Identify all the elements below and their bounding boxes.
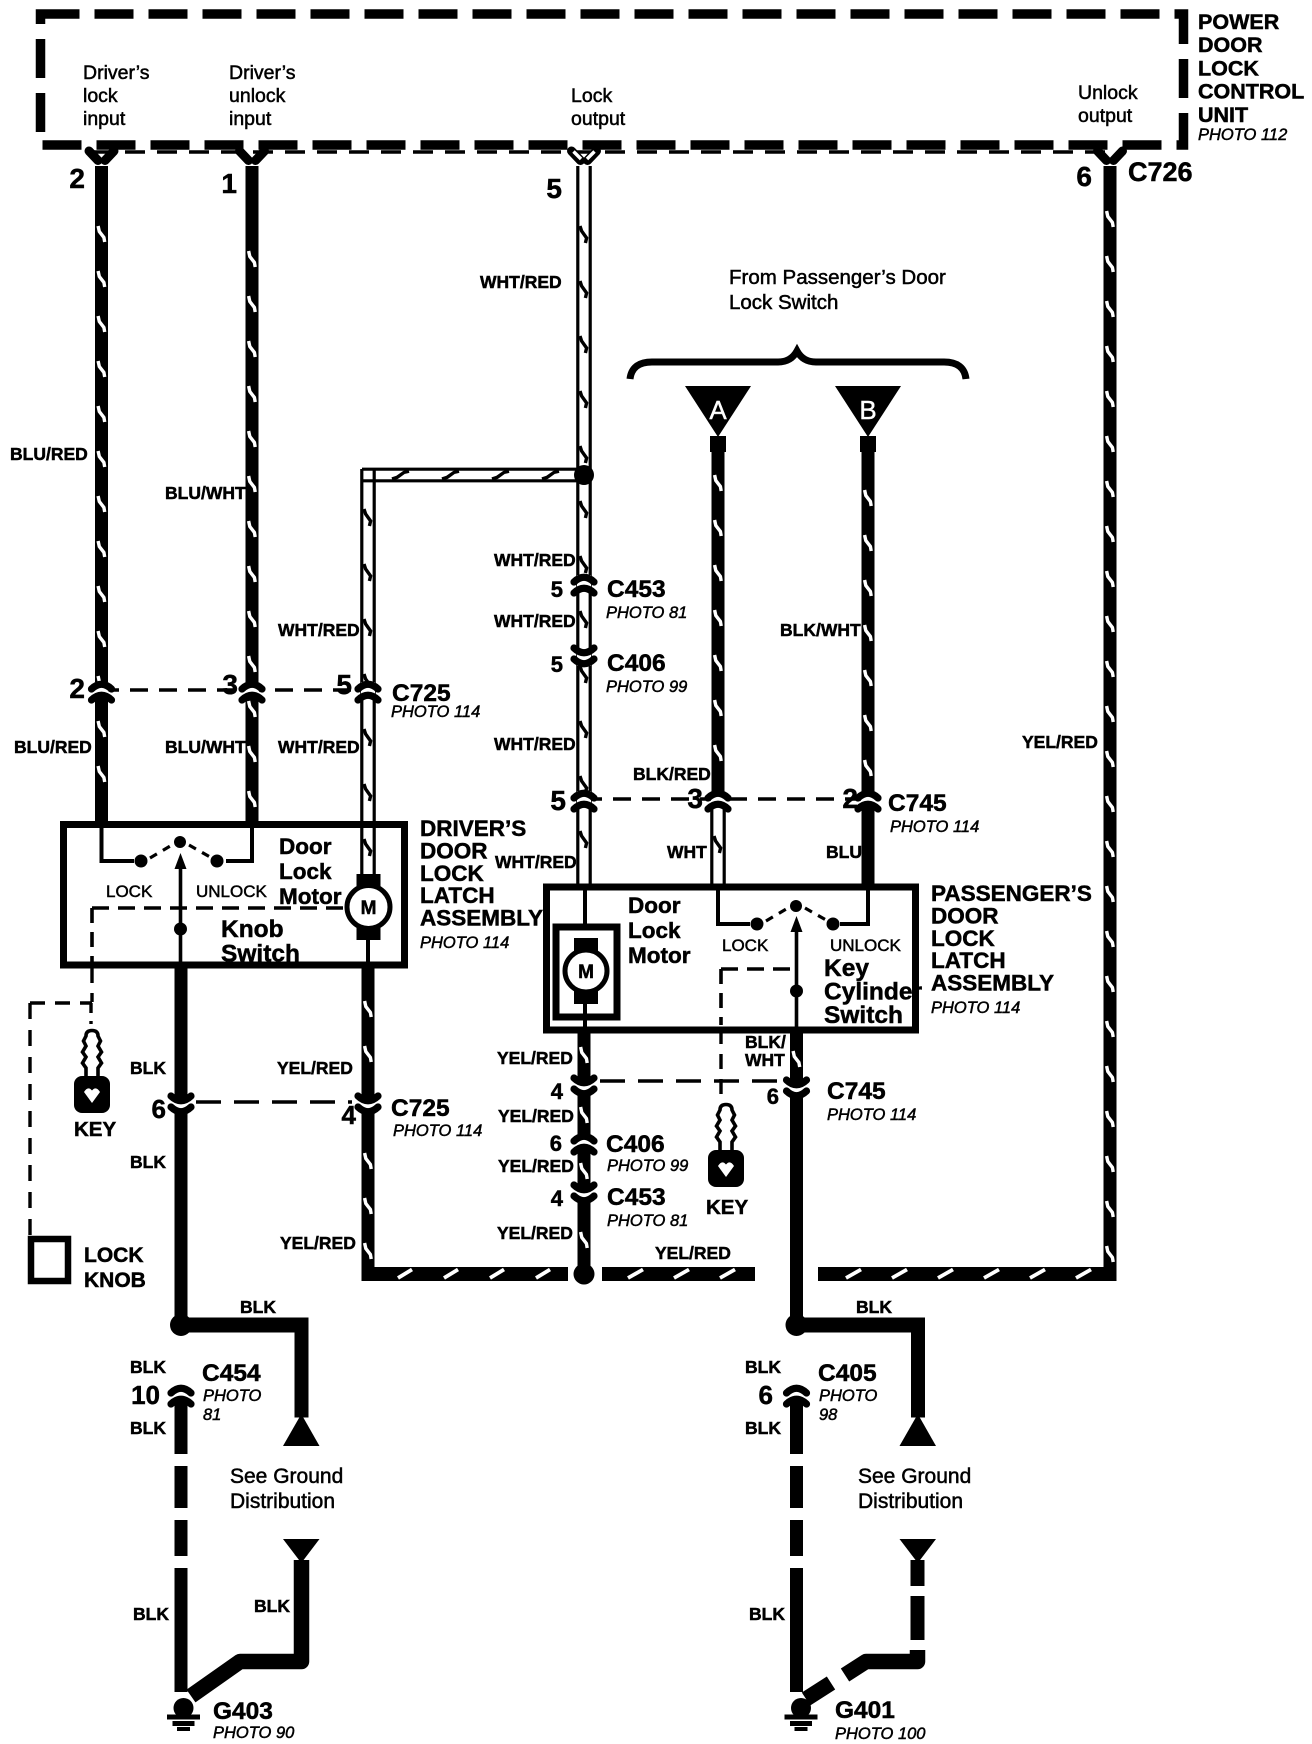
pin 4 label C725 — [342, 1100, 357, 1130]
motor housing (passenger) — [556, 927, 617, 1017]
svg-text:6: 6 — [550, 1131, 562, 1156]
note from passenger's door lock switch — [729, 266, 946, 314]
pin 4 label C453 lower — [551, 1186, 564, 1211]
connector C745 pin2 — [858, 791, 878, 809]
svg-text:UNLOCK: UNLOCK — [830, 936, 902, 955]
driver door lock latch assembly box — [64, 825, 405, 966]
wire lock contact (passenger) — [716, 889, 750, 924]
svg-text:WHT/RED: WHT/RED — [494, 734, 576, 754]
pin 1 label C726 — [221, 168, 237, 199]
knob switch dashed throw right — [189, 845, 210, 857]
label YEL/RED driver latch upper — [277, 1058, 353, 1078]
svg-text:PHOTO 81: PHOTO 81 — [606, 604, 687, 622]
pin 6 terminal fork — [1098, 151, 1123, 161]
wire BLU/WHT pin1 to driver latch — [246, 166, 259, 822]
arrow from ground distribution (passenger) — [900, 1539, 937, 1563]
svg-text:DOOR: DOOR — [931, 903, 999, 928]
connector C725 pin4 — [358, 1096, 378, 1114]
svg-text:LOCK: LOCK — [84, 1244, 144, 1267]
wire BLK/RED from A — [712, 450, 725, 792]
knob switch unlock contact dot — [211, 855, 224, 868]
connector C725 pin2 — [92, 682, 112, 700]
svg-text:DOOR: DOOR — [420, 838, 488, 863]
svg-text:C405: C405 — [818, 1360, 877, 1387]
svg-text:BLK: BLK — [856, 1297, 892, 1317]
svg-text:PHOTO: PHOTO — [203, 1387, 262, 1405]
label WHT/RED upper — [480, 272, 562, 292]
svg-text:input: input — [83, 108, 126, 130]
pin 6 label C726 — [1076, 161, 1092, 192]
svg-text:5: 5 — [546, 173, 562, 204]
wire BLU/RED pin2 to driver latch — [95, 166, 108, 822]
connector C725 pin3 — [242, 682, 262, 700]
svg-text:BLK/: BLK/ — [745, 1032, 786, 1052]
pin 4 label C745 lower — [551, 1079, 564, 1104]
label BLK/WHT below latch — [745, 1032, 786, 1070]
svg-text:G401: G401 — [835, 1697, 895, 1724]
label YEL/RED p4 — [497, 1223, 573, 1243]
dashed link latch to key (passenger) — [719, 1029, 722, 1096]
label BLK below C454 — [130, 1418, 166, 1438]
label BLK branch passenger — [856, 1297, 892, 1317]
svg-text:input: input — [229, 108, 272, 130]
svg-text:Motor: Motor — [279, 884, 342, 909]
key switch pivot dot — [790, 900, 802, 912]
wire YEL/RED passenger motor down — [578, 1031, 591, 1081]
svg-text:PHOTO 114: PHOTO 114 — [393, 1122, 482, 1140]
svg-text:YEL/RED: YEL/RED — [497, 1223, 573, 1243]
svg-text:YEL/RED: YEL/RED — [1022, 732, 1098, 752]
key switch unlock contact dot — [827, 918, 840, 931]
svg-text:UNIT: UNIT — [1198, 103, 1248, 127]
svg-text:PHOTO 114: PHOTO 114 — [827, 1106, 916, 1124]
svg-text:C745: C745 — [888, 790, 947, 817]
svg-text:5: 5 — [551, 577, 563, 602]
label BLU — [826, 842, 862, 862]
svg-text:unlock: unlock — [229, 85, 286, 107]
wire BLK key switch to ground — [790, 1097, 803, 1320]
label lock output pin — [571, 85, 626, 130]
svg-text:5: 5 — [336, 669, 352, 700]
wire YEL/RED C745 to C406 — [578, 1095, 591, 1135]
svg-text:PHOTO 99: PHOTO 99 — [606, 678, 687, 696]
label C745 lower — [827, 1078, 916, 1124]
svg-text:BLK: BLK — [745, 1418, 781, 1438]
wire WHT/RED branch vertical — [362, 469, 374, 878]
label C406 — [606, 650, 687, 696]
wire YEL/RED driver motor down — [362, 966, 375, 1099]
svg-text:PHOTO 114: PHOTO 114 — [391, 703, 480, 721]
svg-text:BLK: BLK — [745, 1357, 781, 1377]
svg-text:lock: lock — [83, 85, 118, 107]
label YEL/RED bus — [655, 1243, 731, 1263]
label BLK branch driver — [240, 1297, 276, 1317]
svg-text:M: M — [361, 898, 377, 919]
label LOCK (driver) — [106, 882, 153, 901]
svg-text:DOOR: DOOR — [1198, 33, 1263, 57]
knob switch arm dot — [174, 923, 187, 936]
svg-text:UNLOCK: UNLOCK — [196, 882, 268, 901]
key symbol (driver) — [74, 1031, 110, 1114]
motor M driver — [347, 874, 390, 940]
wire motor to box bottom (driver) — [366, 940, 370, 966]
label C453 lower — [607, 1184, 688, 1230]
label BLK bottom left main — [133, 1604, 169, 1624]
knob switch pivot dot — [174, 836, 186, 848]
svg-text:WHT: WHT — [745, 1050, 785, 1070]
key switch dashed throw right — [805, 908, 826, 920]
off-page connector B — [835, 386, 901, 452]
ground G403 — [167, 1698, 200, 1731]
svg-text:BLK: BLK — [130, 1418, 166, 1438]
svg-text:WHT/RED: WHT/RED — [494, 550, 576, 570]
svg-text:6: 6 — [759, 1380, 773, 1410]
knob switch arm arrow — [175, 853, 187, 968]
label C725 upper — [391, 680, 480, 721]
svg-text:BLK/WHT: BLK/WHT — [780, 620, 861, 640]
label door lock motor (passenger) — [628, 893, 691, 968]
arrow from ground distribution (driver) — [283, 1539, 320, 1563]
connector C745 line upper — [584, 797, 868, 801]
junction dot passenger BLK — [786, 1314, 808, 1336]
label YEL/RED right — [1022, 732, 1098, 752]
svg-text:LOCK: LOCK — [420, 861, 484, 886]
connector C406 pin5 — [574, 648, 594, 666]
connector C454 pin10 — [171, 1386, 191, 1404]
pin 2 label C725 — [69, 673, 85, 704]
wire motor feed (passenger) — [583, 889, 587, 930]
label WHT/RED above passenger latch — [495, 852, 577, 872]
svg-text:6: 6 — [1076, 161, 1092, 192]
svg-text:C726: C726 — [1128, 157, 1193, 187]
svg-text:Door: Door — [279, 834, 332, 859]
svg-text:2: 2 — [842, 783, 858, 814]
svg-text:Distribution: Distribution — [858, 1490, 963, 1513]
label BLK bottom left branch — [254, 1596, 290, 1616]
svg-text:output: output — [1078, 105, 1133, 127]
label UNLOCK (driver) — [196, 882, 268, 901]
svg-text:LATCH: LATCH — [931, 948, 1006, 973]
label KEY (passenger) — [706, 1196, 748, 1219]
key symbol (passenger) — [708, 1105, 744, 1188]
svg-text:3: 3 — [222, 669, 238, 700]
svg-text:5: 5 — [550, 785, 566, 816]
svg-text:YEL/RED: YEL/RED — [655, 1243, 731, 1263]
pin 5 terminal fork — [572, 151, 597, 161]
label C454 — [202, 1360, 262, 1424]
pin 5 label C453 — [551, 577, 563, 602]
label door lock motor (driver) — [279, 834, 342, 909]
svg-text:POWER: POWER — [1198, 10, 1280, 34]
svg-text:PHOTO 100: PHOTO 100 — [835, 1725, 926, 1743]
wire YEL/RED bus left — [362, 1267, 756, 1281]
label BLU/RED upper — [10, 444, 88, 464]
svg-text:WHT: WHT — [667, 842, 707, 862]
wire BLK dashed to ground (passenger) — [790, 1398, 803, 1692]
svg-text:ASSEMBLY: ASSEMBLY — [420, 906, 543, 931]
pin 3 label C745 — [687, 783, 703, 814]
connector C725 line upper — [101, 688, 368, 692]
wire WHT from C745 to passenger latch — [712, 806, 724, 888]
pin 6 label C725 — [152, 1094, 166, 1124]
passenger door lock latch assembly box — [547, 887, 916, 1030]
label YEL/RED driver latch lower — [280, 1233, 356, 1253]
svg-text:WHT/RED: WHT/RED — [494, 611, 576, 631]
svg-text:LOCK: LOCK — [1198, 56, 1259, 80]
label WHT/RED branch upper — [278, 620, 360, 640]
svg-text:C725: C725 — [391, 1095, 450, 1122]
pin 5 label C406 — [551, 652, 563, 677]
connector C726 line — [93, 150, 1106, 154]
motor M passenger — [565, 938, 607, 1004]
svg-text:Driver’s: Driver’s — [229, 62, 296, 84]
ground G401 — [785, 1698, 818, 1731]
svg-text:Door: Door — [628, 893, 681, 918]
svg-text:3: 3 — [687, 783, 703, 814]
pin 6 label C745 lower — [767, 1084, 779, 1109]
label LOCK (passenger) — [722, 936, 769, 955]
svg-text:WHT/RED: WHT/RED — [278, 620, 360, 640]
knob switch dashed throw left — [150, 845, 172, 858]
pin 6 label C405 — [759, 1380, 773, 1410]
dashed link latch to key/knob — [30, 968, 92, 1236]
label driver's unlock input pin — [229, 62, 296, 130]
wire WHT/RED lock output (white) — [578, 166, 590, 884]
label BLK bottom right main — [749, 1604, 785, 1624]
svg-text:Distribution: Distribution — [230, 1490, 335, 1513]
svg-text:4: 4 — [342, 1100, 357, 1130]
svg-text:BLK: BLK — [749, 1604, 785, 1624]
label WHT — [667, 842, 707, 862]
junction dot bus — [574, 1264, 595, 1285]
svg-text:KEY: KEY — [74, 1118, 116, 1141]
label WHT/RED below C406 — [494, 734, 576, 754]
svg-text:M: M — [578, 962, 594, 983]
pin 3 label C725 — [222, 669, 238, 700]
svg-text:10: 10 — [131, 1380, 160, 1410]
svg-text:81: 81 — [203, 1406, 221, 1424]
svg-text:PHOTO 81: PHOTO 81 — [607, 1212, 688, 1230]
wire unlock contact (driver) — [226, 826, 254, 861]
svg-text:Lock Switch: Lock Switch — [729, 291, 838, 314]
connector C745 pin5 — [574, 791, 594, 809]
junction dot lock output branch — [574, 465, 594, 485]
label BLU/WHT upper — [165, 483, 246, 503]
svg-text:BLK/RED: BLK/RED — [633, 764, 711, 784]
svg-text:4: 4 — [551, 1079, 564, 1104]
svg-text:PHOTO 114: PHOTO 114 — [931, 999, 1020, 1017]
svg-text:BLU/WHT: BLU/WHT — [165, 483, 246, 503]
svg-text:ASSEMBLY: ASSEMBLY — [931, 971, 1054, 996]
wire BLK branch driver — [188, 1318, 309, 1418]
label driver's lock input pin — [83, 62, 150, 130]
svg-text:G403: G403 — [213, 1698, 273, 1725]
svg-text:Motor: Motor — [628, 943, 691, 968]
label YEL/RED p3 — [498, 1156, 574, 1176]
svg-text:PASSENGER’S: PASSENGER’S — [931, 881, 1092, 906]
label YEL/RED p2 — [498, 1106, 574, 1126]
pin 1 terminal fork — [240, 151, 265, 161]
pin 5 label C725 — [336, 669, 352, 700]
junction dot driver BLK — [170, 1314, 192, 1336]
svg-text:1: 1 — [221, 168, 237, 199]
svg-text:BLK: BLK — [133, 1604, 169, 1624]
connector C725 line lower — [196, 1100, 352, 1104]
key switch lock contact dot — [751, 918, 764, 931]
wire BLK/WHT from B — [862, 450, 875, 792]
svg-text:BLK: BLK — [130, 1058, 166, 1078]
wire YEL/RED C406 to C453 — [578, 1149, 591, 1188]
svg-text:BLU/RED: BLU/RED — [10, 444, 88, 464]
svg-text:From Passenger’s Door: From Passenger’s Door — [729, 266, 946, 289]
pin 10 label C454 — [131, 1380, 160, 1410]
svg-text:2: 2 — [69, 673, 85, 704]
wire YEL/RED unlock output — [1104, 166, 1117, 1270]
svg-text:C406: C406 — [606, 1131, 665, 1158]
svg-text:BLK: BLK — [130, 1152, 166, 1172]
note see ground distribution (passenger) — [858, 1465, 971, 1513]
svg-text:C453: C453 — [607, 576, 666, 603]
connector C725 pin5 — [358, 682, 378, 700]
lock knob symbol — [31, 1239, 68, 1281]
svg-text:LOCK: LOCK — [106, 882, 153, 901]
label BLU/RED lower — [14, 737, 92, 757]
label C406 lower — [606, 1131, 688, 1175]
label BLK above C405 — [745, 1357, 781, 1377]
label YEL/RED p1 — [497, 1048, 573, 1068]
label WHT/RED branch lower — [278, 737, 360, 757]
svg-text:PHOTO: PHOTO — [819, 1387, 878, 1405]
wire motor to box bottom (passenger) — [583, 1004, 587, 1030]
pin 2 label C726 — [69, 163, 85, 194]
svg-text:Switch: Switch — [824, 1002, 903, 1029]
label G403 — [213, 1698, 295, 1742]
svg-text:CONTROL: CONTROL — [1198, 80, 1304, 104]
svg-text:B: B — [859, 395, 876, 425]
svg-text:A: A — [709, 395, 727, 425]
svg-text:6: 6 — [152, 1094, 166, 1124]
svg-text:6: 6 — [767, 1084, 779, 1109]
label passenger latch assembly — [931, 881, 1092, 1017]
svg-text:output: output — [571, 108, 626, 130]
svg-text:4: 4 — [551, 1186, 564, 1211]
label driver latch assembly — [420, 816, 543, 952]
key switch arm dot — [790, 985, 803, 998]
label WHT/RED above C453 — [494, 550, 576, 570]
svg-text:PHOTO 112: PHOTO 112 — [1198, 126, 1287, 144]
svg-text:BLU/RED: BLU/RED — [14, 737, 92, 757]
svg-text:YEL/RED: YEL/RED — [497, 1048, 573, 1068]
key switch arm arrow — [791, 916, 803, 1030]
connector C745 pin4 — [574, 1078, 594, 1096]
label BLK below C725-6 — [130, 1152, 166, 1172]
note see ground distribution (driver) — [230, 1465, 343, 1513]
label G401 — [835, 1697, 926, 1743]
wire WHT/RED branch horizontal — [362, 469, 584, 481]
connector C745 line lower — [600, 1079, 788, 1083]
pin 6 label C406 lower — [550, 1131, 562, 1156]
wire BLK stub to ground (driver) — [191, 1560, 302, 1696]
label C405 — [818, 1360, 878, 1424]
svg-text:KEY: KEY — [706, 1196, 748, 1219]
brace — [630, 351, 966, 379]
label C726 — [1128, 157, 1193, 187]
label LOCK KNOB — [84, 1244, 146, 1292]
svg-text:BLK: BLK — [240, 1297, 276, 1317]
label BLK/WHT — [780, 620, 861, 640]
label C725 lower — [391, 1095, 482, 1140]
label UNLOCK (passenger) — [830, 936, 902, 955]
connector C745 pin3 — [708, 791, 728, 809]
connector C405 pin6 — [787, 1386, 807, 1404]
svg-text:BLK: BLK — [254, 1596, 290, 1616]
pin 5 label C745 — [550, 785, 566, 816]
svg-text:BLU: BLU — [826, 842, 862, 862]
svg-text:WHT/RED: WHT/RED — [495, 852, 577, 872]
label BLK above C454 — [130, 1357, 166, 1377]
svg-text:98: 98 — [819, 1406, 838, 1424]
wire BLK/WHT key switch down — [790, 1031, 803, 1083]
svg-text:See Ground: See Ground — [858, 1465, 971, 1488]
wire BLK branch passenger — [803, 1318, 925, 1418]
svg-text:LOCK: LOCK — [722, 936, 769, 955]
label U1 name — [1198, 10, 1304, 144]
label BLU/WHT lower — [165, 737, 246, 757]
svg-text:YEL/RED: YEL/RED — [498, 1156, 574, 1176]
svg-text:See Ground: See Ground — [230, 1465, 343, 1488]
pin 2 terminal fork — [89, 151, 114, 161]
svg-text:PHOTO 114: PHOTO 114 — [420, 934, 509, 952]
connector C745 pin6 — [787, 1080, 807, 1098]
wire YEL/RED bus right — [818, 1267, 1117, 1281]
knob switch lock contact dot — [135, 855, 148, 868]
label WHT/RED between — [494, 611, 576, 631]
key switch dashed throw left — [766, 908, 788, 921]
svg-text:Driver’s: Driver’s — [83, 62, 150, 84]
connector C406 pin6 — [574, 1134, 594, 1152]
label KEY (driver) — [74, 1118, 116, 1141]
svg-text:LATCH: LATCH — [420, 883, 495, 908]
label unlock output pin — [1078, 82, 1138, 127]
pin 5 label C726 — [546, 173, 562, 204]
pin 2 label C745 — [842, 783, 858, 814]
svg-text:Knob: Knob — [221, 916, 284, 943]
svg-text:YEL/RED: YEL/RED — [498, 1106, 574, 1126]
svg-text:LOCK: LOCK — [931, 926, 995, 951]
connector C453 pin4 — [574, 1185, 594, 1203]
wire YEL/RED C453 to bus — [578, 1202, 591, 1268]
wire BLK dashed to ground (driver) — [175, 1398, 188, 1692]
wire unlock contact (passenger) — [840, 889, 870, 924]
connector C725 pin6 — [171, 1096, 191, 1114]
svg-text:C745: C745 — [827, 1078, 886, 1105]
svg-text:WHT/RED: WHT/RED — [278, 737, 360, 757]
label BLK/RED — [633, 764, 711, 784]
svg-text:WHT/RED: WHT/RED — [480, 272, 562, 292]
svg-text:2: 2 — [69, 163, 85, 194]
svg-text:Unlock: Unlock — [1078, 82, 1138, 104]
svg-text:5: 5 — [551, 652, 563, 677]
label key cylinder switch — [824, 955, 922, 1029]
arrow to ground distribution (passenger) — [900, 1414, 937, 1446]
label knob switch — [221, 916, 300, 968]
key switch dashed linkage — [721, 969, 794, 1025]
svg-text:Lock: Lock — [571, 85, 612, 107]
label BLK above C725-6 — [130, 1058, 166, 1078]
svg-text:Lock: Lock — [279, 859, 332, 884]
arrow to ground distribution (driver) — [283, 1414, 320, 1446]
label C745 upper — [888, 790, 979, 836]
